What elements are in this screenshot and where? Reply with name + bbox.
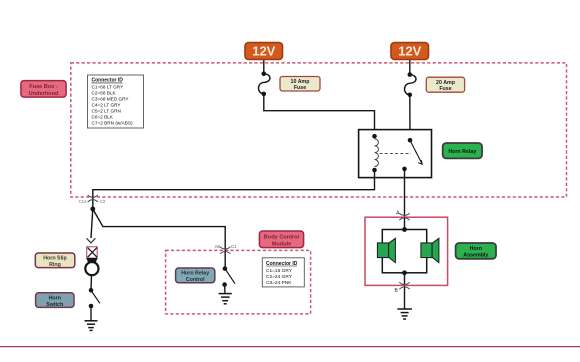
label C12 xyxy=(79,199,87,204)
horn speaker right xyxy=(421,238,439,262)
wire: horn assembly node B to ground xyxy=(404,273,406,309)
svg-text:Horn Relay: Horn Relay xyxy=(448,149,476,155)
wire: relay coil to connector C12 xyxy=(93,170,375,209)
body control module dashed boundary xyxy=(166,250,311,314)
battery feed 12V left xyxy=(245,43,283,60)
relay switch arm xyxy=(402,138,422,171)
ground G1 (horn switch) xyxy=(85,306,98,330)
svg-text:Control: Control xyxy=(186,277,205,283)
horn speaker left xyxy=(377,238,395,262)
BCM connector ID box xyxy=(262,258,304,287)
wire: fuse F2 to relay switch terminal xyxy=(409,95,411,140)
svg-text:C3=24 PNK: C3=24 PNK xyxy=(266,280,292,286)
Horn Slip Ring label xyxy=(35,253,75,268)
wire: junction to BCM connector A6 xyxy=(93,209,225,269)
label A xyxy=(396,211,400,217)
connector B symbol xyxy=(399,282,409,289)
svg-text:10 Amp: 10 Amp xyxy=(291,79,311,85)
svg-text:C1: C1 xyxy=(231,244,237,249)
svg-text:Horn Slip: Horn Slip xyxy=(43,256,67,262)
relay coil xyxy=(372,134,378,172)
svg-text:12V: 12V xyxy=(398,44,421,59)
label B xyxy=(394,288,398,294)
relay actuator dashed link xyxy=(380,153,412,155)
BCM driver switch xyxy=(222,266,235,287)
connector A symbol xyxy=(399,213,409,220)
battery feed 12V right xyxy=(391,43,429,60)
ground G2 (BCM) xyxy=(219,285,232,304)
wire: right 12V feed down to fuse F2 xyxy=(409,59,411,75)
wire: left 12V feed down to fuse F1 xyxy=(263,59,265,74)
wire: junction to horn slip ring with arrow xyxy=(87,209,96,243)
svg-text:A6: A6 xyxy=(215,244,221,249)
wire: fuse F1 to relay coil terminal xyxy=(264,94,375,136)
svg-text:C12: C12 xyxy=(79,199,87,204)
fuse box underhood dashed boundary xyxy=(71,63,567,197)
Horn Relay Control label xyxy=(176,268,215,283)
svg-text:12V: 12V xyxy=(252,44,275,59)
svg-text:Fuse: Fuse xyxy=(294,85,306,91)
svg-text:Horn: Horn xyxy=(49,295,61,301)
svg-text:C2: C2 xyxy=(100,199,106,204)
svg-text:20 Amp: 20 Amp xyxy=(436,80,456,86)
label C2 xyxy=(100,199,106,204)
relay box K1 xyxy=(359,130,432,178)
horn assembly boundary xyxy=(365,217,448,285)
svg-text:C7=2 BRN (w/ABS): C7=2 BRN (w/ABS) xyxy=(92,120,133,125)
svg-text:Horn: Horn xyxy=(470,246,482,252)
Horn Switch label xyxy=(36,293,74,308)
svg-text:Assembly: Assembly xyxy=(463,252,488,258)
svg-text:C1=68 LT GRY: C1=68 LT GRY xyxy=(92,84,125,89)
svg-text:C2=68 BLK: C2=68 BLK xyxy=(92,90,117,95)
svg-text:Module: Module xyxy=(272,241,292,247)
20 Amp Fuse label xyxy=(426,77,464,92)
bottom rule xyxy=(0,346,580,348)
svg-text:Switch: Switch xyxy=(46,302,63,308)
svg-text:C1=16 GRY: C1=16 GRY xyxy=(266,268,293,274)
svg-text:B: B xyxy=(394,288,398,294)
svg-text:C6=2 BLK: C6=2 BLK xyxy=(92,114,114,119)
svg-text:C5=2 LT GRN: C5=2 LT GRN xyxy=(92,108,121,113)
fuse F2 20A symbol xyxy=(404,72,416,97)
Body Control Module label xyxy=(259,231,303,248)
horn slip ring symbol xyxy=(85,247,98,276)
svg-text:C3=68 MED GRY: C3=68 MED GRY xyxy=(92,96,130,101)
wire: slip ring to horn switch xyxy=(90,275,93,290)
label C1 xyxy=(231,244,237,249)
svg-text:C4=2 LT GRY: C4=2 LT GRY xyxy=(92,102,122,107)
connector A6/C1 symbol xyxy=(220,247,230,254)
svg-text:Fuse: Fuse xyxy=(439,86,451,92)
horn branch wiring xyxy=(382,227,426,275)
svg-text:C2=24 GRY: C2=24 GRY xyxy=(266,274,293,280)
ground G3 (horn assembly) xyxy=(397,309,412,319)
10 Amp Fuse label xyxy=(280,77,320,92)
fuse box connector ID box xyxy=(88,75,144,128)
wire: relay switch to horn assembly node A xyxy=(404,169,406,230)
svg-text:Fuse Box -: Fuse Box - xyxy=(29,84,58,90)
fuse F1 10A symbol xyxy=(258,71,270,96)
svg-text:Underhood: Underhood xyxy=(29,91,59,97)
svg-text:Horn Relay: Horn Relay xyxy=(181,271,209,277)
Horn Relay label xyxy=(443,143,482,158)
junction node xyxy=(90,207,95,212)
label A6 xyxy=(215,244,221,249)
svg-text:Ring: Ring xyxy=(49,262,61,268)
horn switch symbol xyxy=(89,288,100,308)
Fuse Box Underhood label xyxy=(21,81,66,98)
svg-text:Body Control: Body Control xyxy=(264,235,300,241)
connector C12/C2 symbol xyxy=(88,195,98,202)
Horn Assembly label xyxy=(456,243,496,259)
